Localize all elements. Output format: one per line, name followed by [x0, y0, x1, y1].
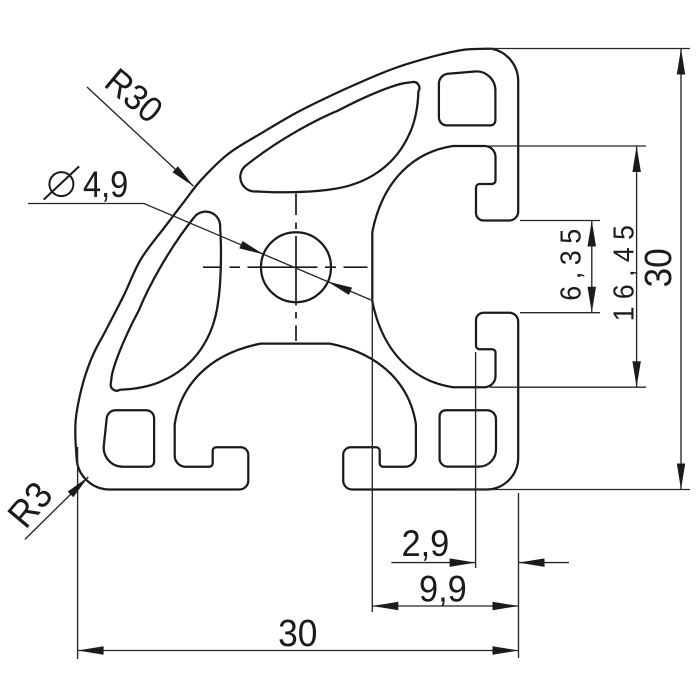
diameter symbol slash [44, 166, 79, 199]
R3 leader line [25, 477, 88, 540]
svg-text:2,9: 2,9 [401, 523, 449, 564]
bottom-left closed cavity [104, 410, 154, 467]
top-right closed cavity [439, 71, 496, 125]
svg-text:30: 30 [278, 612, 317, 654]
ext 9,9 left [371, 302, 373, 612]
ext 16,45 bottom [490, 386, 646, 388]
ext shared right edge [518, 493, 520, 658]
ext 6,35 bottom [520, 312, 600, 314]
arrow 2,9 right [519, 558, 545, 567]
centerline horizontal (dash segments) [203, 266, 368, 268]
svg-text:16,45: 16,45 [608, 218, 640, 322]
dim 2,9 right segment [519, 562, 569, 564]
arrow 30-bottom right [493, 646, 519, 655]
R30 leader line [87, 87, 194, 186]
diameter symbol circle [49, 172, 73, 196]
center bore [261, 232, 331, 302]
ext 6,35 top [520, 220, 600, 222]
arrow 6,35 top [588, 221, 597, 247]
left arc cavity [111, 212, 221, 391]
upper arc cavity [240, 82, 419, 192]
centerline vertical (dash segments) [295, 194, 297, 342]
dia 4,9 leader polyline [28, 204, 371, 301]
arrow 2,9 left [450, 558, 476, 567]
dim line right 30 [680, 49, 682, 490]
svg-text:6,35: 6,35 [555, 222, 587, 301]
arrow 9,9 right [493, 602, 519, 610]
arrow 30-right top [677, 49, 685, 75]
svg-text:9,9: 9,9 [419, 568, 467, 609]
arrow dia leader lower [328, 282, 353, 296]
ext bottom 30 left [77, 447, 79, 659]
arrow R30 leader [173, 166, 194, 186]
dim line 16,45 [636, 146, 638, 387]
ext line top for right 30 [490, 48, 690, 50]
arrow 16,45 bottom [632, 361, 641, 387]
ext line bottom for right 30 [460, 489, 690, 491]
dim 9,9 [372, 605, 518, 607]
arrow dia leader upper [239, 241, 264, 255]
bottom-right closed cavity [440, 410, 496, 466]
arrow 16,45 top [632, 146, 641, 172]
arrow 30-bottom left [78, 646, 104, 655]
dim line 6,35 [591, 221, 593, 313]
ext 2,9 left [475, 352, 477, 568]
dim 2,9 left segment [391, 562, 475, 564]
dim bottom 30 [78, 650, 519, 652]
ext 16,45 top [488, 145, 646, 147]
svg-text:4,9: 4,9 [83, 164, 128, 205]
arrow 30-right bottom [677, 464, 685, 490]
arrow 6,35 bottom [588, 287, 597, 313]
arrow 9,9 left [372, 602, 398, 610]
svg-text:30: 30 [637, 248, 679, 287]
arrow R3 leader [68, 477, 89, 497]
profile outer contour with T-slots [75, 49, 518, 490]
